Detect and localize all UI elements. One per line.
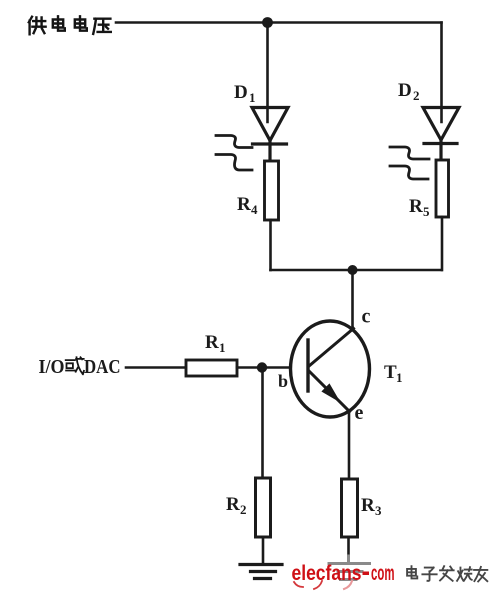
svg-text:R: R <box>237 194 251 215</box>
D1 light arrows <box>216 136 252 171</box>
wire top rail <box>116 21 442 24</box>
emitter arrowhead <box>323 385 339 401</box>
wire D1 drop <box>266 23 269 123</box>
svg-text:b: b <box>278 371 288 391</box>
node rail junction <box>348 265 358 275</box>
svg-text:e: e <box>355 402 364 424</box>
ground under R3 (gray) <box>329 556 370 580</box>
wire R4 bottom <box>269 220 272 270</box>
LED D2 <box>423 108 459 161</box>
svg-text:1: 1 <box>219 340 226 355</box>
svg-text:R: R <box>361 495 375 516</box>
label 供电电压 <box>29 16 111 34</box>
node base junction <box>257 362 267 372</box>
svg-text:1: 1 <box>249 90 256 105</box>
resistor R1 <box>186 360 237 376</box>
svg-text:D: D <box>234 82 248 103</box>
wire bottom rail <box>271 269 442 272</box>
wire R2 to ground <box>262 537 265 563</box>
svg-text:DAC: DAC <box>84 356 121 378</box>
wire D2 drop <box>440 23 443 123</box>
watermark 电子发烧友 <box>407 566 487 581</box>
wire base input <box>126 366 186 369</box>
wire R1 to node <box>237 366 290 369</box>
transistor T1 <box>291 321 370 417</box>
ground under R2 <box>240 565 282 579</box>
wire R5 bottom <box>441 217 444 270</box>
resistor R2 <box>256 478 271 537</box>
LED D1 <box>252 108 288 162</box>
svg-text:R: R <box>205 332 219 353</box>
watermark elecfans.com <box>292 562 395 589</box>
resistor R5 <box>436 160 449 217</box>
node top junction <box>262 17 273 28</box>
wire collector drop <box>351 270 354 329</box>
svg-text:I/O: I/O <box>39 356 65 378</box>
svg-text:2: 2 <box>413 88 420 103</box>
wire emitter to R3 <box>348 412 351 479</box>
svg-text:3: 3 <box>375 503 382 518</box>
D2 light arrows <box>390 147 429 179</box>
svg-text:R: R <box>409 196 423 217</box>
resistor R3 <box>342 479 358 537</box>
svg-text:c: c <box>362 306 371 328</box>
svg-text:4: 4 <box>251 202 258 217</box>
svg-text:R: R <box>226 494 240 515</box>
svg-text:1: 1 <box>396 370 403 385</box>
svg-text:D: D <box>398 80 412 101</box>
wire node to R2 <box>261 368 264 479</box>
svg-text:com: com <box>371 562 395 585</box>
svg-text:2: 2 <box>240 502 247 517</box>
svg-text:5: 5 <box>423 204 430 219</box>
resistor R4 <box>265 161 279 220</box>
wire R3 to ground <box>347 537 350 556</box>
